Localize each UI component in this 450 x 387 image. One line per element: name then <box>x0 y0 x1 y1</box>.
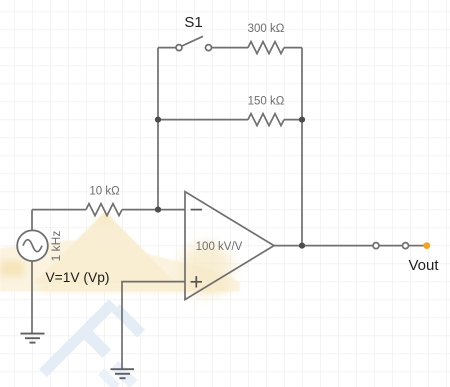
probe terminal circle 1 <box>373 243 379 249</box>
watermark blue F <box>39 296 167 387</box>
wire: right vertical from 300k down to output node <box>301 48 303 246</box>
op-amp U1 minus pin marker <box>191 209 202 211</box>
junction dot: inverting input node <box>155 207 161 213</box>
wire: from 300k to right vertical <box>284 47 302 49</box>
switch S1 <box>176 36 212 50</box>
ground symbol GND1 (source) <box>21 334 45 343</box>
resistor 300 kOhm <box>248 42 284 54</box>
svg-text:V=1V (Vp): V=1V (Vp) <box>45 270 109 285</box>
op-amp U1 <box>185 192 274 300</box>
svg-text:100 kV/V: 100 kV/V <box>196 241 243 253</box>
wire: from S1 right terminal to resistor R 300k <box>212 47 249 49</box>
node Vout (orange terminal) <box>423 242 430 249</box>
circuit strokes <box>17 36 424 378</box>
resistor 150 kOhm <box>248 114 284 126</box>
svg-text:150 kΩ: 150 kΩ <box>248 95 285 107</box>
wire: between probe terminals <box>379 245 403 247</box>
wire: 10k to op-amp inverting input <box>122 209 185 211</box>
wire: 150k right lead to right vertical <box>284 119 302 121</box>
svg-text:10 kΩ: 10 kΩ <box>89 186 120 198</box>
svg-text:S1: S1 <box>184 14 202 31</box>
wire: top-left vertical from switch branch down to inverting node (net between S1 branch, 150k, and op-amp minus) <box>157 48 159 210</box>
wire: top wire from left vertical to switch S1 terminal <box>158 47 176 49</box>
wire: 150k left lead from inverting branch <box>158 119 248 121</box>
resistor 10 kOhm <box>86 204 122 216</box>
wire: source bottom lead to ground <box>31 261 33 334</box>
voltage source V1 sine 1kHz <box>17 230 48 261</box>
junction dot: 150k right / right vertical <box>299 117 305 123</box>
ground symbol GND2 (non-inverting input) <box>111 369 135 378</box>
junction dot: output node <box>299 243 305 249</box>
wire: to Vout node <box>409 245 425 247</box>
op-amp U1 plus pin marker <box>191 276 202 287</box>
wire: source to 10k resistor (input wire) <box>32 209 86 211</box>
junction dot: 150k left / inverting branch <box>155 117 161 123</box>
wire: non-inverting input to ground branch <box>122 282 185 370</box>
svg-text:1 kHz: 1 kHz <box>49 231 63 262</box>
svg-text:300 kΩ: 300 kΩ <box>248 23 285 35</box>
wire: op-amp output to probe terminals <box>274 245 373 247</box>
probe terminal circle 2 <box>403 243 409 249</box>
svg-text:Vout: Vout <box>408 257 439 274</box>
wire: source top lead <box>31 210 33 231</box>
